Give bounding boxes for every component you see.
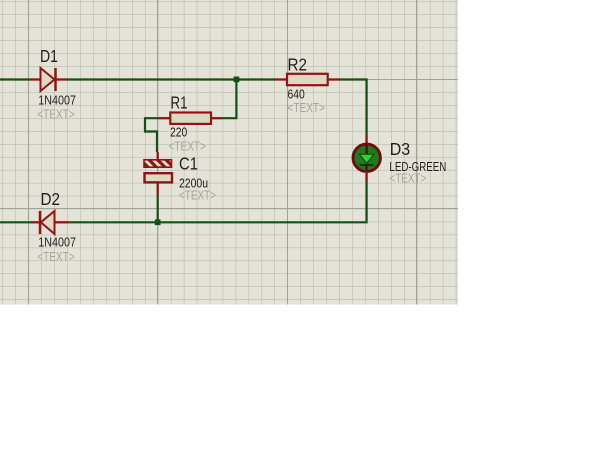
wire: bottom net left segment [0, 221, 32, 223]
wire: R1 left lead jog down to C1 [145, 118, 158, 152]
wire: LED to bottom net [366, 182, 368, 222]
svg-text:220: 220 [170, 125, 187, 140]
svg-text:R1: R1 [171, 93, 188, 113]
svg-text:<TEXT>: <TEXT> [288, 100, 325, 115]
major grid vertical lines [29, 0, 417, 305]
svg-text:1N4007: 1N4007 [38, 93, 76, 108]
svg-text:<TEXT>: <TEXT> [169, 139, 206, 154]
wire: top net left segment [0, 78, 30, 80]
diode D1 [30, 68, 67, 91]
resistor R1 [158, 113, 223, 124]
svg-text:<TEXT>: <TEXT> [37, 249, 74, 264]
svg-text:R2: R2 [288, 55, 308, 75]
junction node at R1 branch [234, 77, 240, 83]
schematic grid canvas [0, 0, 458, 305]
wire: bottom net right segment [69, 221, 368, 223]
svg-text:D2: D2 [41, 189, 61, 209]
svg-text:<TEXT>: <TEXT> [389, 171, 426, 186]
LED D3 [353, 135, 380, 182]
svg-text:D3: D3 [390, 139, 410, 159]
svg-text:C1: C1 [179, 154, 198, 174]
wire: top net right segment to LED branch [340, 80, 367, 136]
resistor R2 [275, 74, 340, 85]
junction node on bottom net [155, 219, 161, 225]
diode D2 [32, 211, 70, 234]
capacitor C1 [144, 152, 172, 196]
svg-text:<TEXT>: <TEXT> [179, 188, 216, 203]
svg-text:1N4007: 1N4007 [38, 235, 76, 250]
major grid horizontal lines [0, 80, 458, 209]
wire: C1 to bottom net [157, 196, 159, 223]
svg-text:<TEXT>: <TEXT> [37, 107, 74, 122]
wire: branch from top net down to R1 [222, 80, 236, 119]
wire: top net middle segment [67, 78, 276, 80]
svg-text:D1: D1 [40, 46, 58, 66]
